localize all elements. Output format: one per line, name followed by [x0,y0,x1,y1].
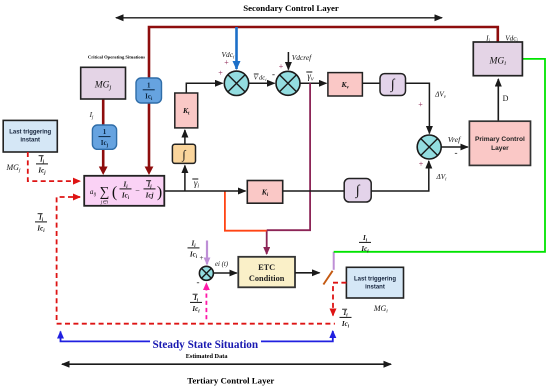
wire red dashed from last-trigger MGi down [333,283,346,316]
block Kv [328,73,363,96]
svg-text:): ) [157,184,162,201]
svg-text:j∈i: j∈i [100,200,109,206]
block integrator2 (orange) [172,144,195,163]
wire Ki to integrator3 [283,190,345,192]
svg-text:Vref: Vref [448,135,462,144]
svg-text:∫: ∫ [181,148,186,162]
svg-text:+: + [224,58,229,67]
svg-text:Ici: Ici [36,225,45,235]
block integrator1 (upper) [380,74,406,96]
wire D arrow PCL to MGi [497,79,499,121]
wire integrator1 to junction3 (DeltaV_v) [406,83,430,133]
svg-text:Layer: Layer [491,145,509,152]
wire integrator2 to Kt [184,130,186,144]
wire dark-red bus top (MGi feed) [149,27,498,173]
wire maroon drop into ETC Condition [266,230,268,254]
wire dark-red MGj chain down [102,99,105,167]
wire e_i junction to ETC [214,272,237,274]
svg-text:ΔVv: ΔVv [434,91,447,101]
svg-text:+: + [419,160,424,169]
block Kt [175,93,198,128]
svg-text:+: + [279,62,284,71]
svg-text:+: + [418,100,423,109]
block Last triggering instant (MGj) [3,120,57,152]
svg-text:MGj: MGj [94,81,112,92]
svg-text:Critical Operating Situations: Critical Operating Situations [88,55,145,60]
wire secondary-layer double arrow [116,17,442,19]
svg-text:Condition: Condition [249,274,285,283]
wire dark-red arrow into summation (from 1/Ici) [145,167,154,176]
wire purple arrow into e_i junction [206,241,208,265]
svg-text:Icj: Icj [145,192,154,200]
svg-text:Ij: Ij [89,111,94,121]
block MGj [81,67,126,99]
svg-text:1: 1 [103,128,107,136]
wire tertiary-layer double arrow [62,363,391,365]
wire purple switch terminal from green line [333,252,335,270]
svg-text:Primary Control: Primary Control [475,136,525,143]
svg-text:Ici: Ici [360,245,369,255]
wire ETC output to switch [295,272,320,274]
wire Vdc_i blue arrow [235,27,238,69]
svg-text:Last triggering: Last triggering [354,277,396,283]
wire green feedback from MGi [334,59,545,252]
wire junction3 to Primary Control Layer (Vref) [441,146,468,148]
svg-text:+: + [200,254,204,262]
svg-text:Ici: Ici [341,320,350,330]
wire maroon tap from gamma_v down to ETC [267,83,310,230]
svg-text:Ici: Ici [191,305,200,315]
block Primary Control Layer [469,121,530,165]
svg-text:ETC: ETC [258,263,275,272]
svg-text:V dci: V dci [254,75,268,83]
summing junction U3 (Vref) [417,135,441,159]
block Last triggering instant (MGi) [346,267,403,298]
svg-text:instant: instant [20,138,40,144]
svg-text:Icj: Icj [37,167,46,177]
wire red dashed steady-state feedback up into summation [57,197,80,320]
svg-text:D: D [503,94,509,103]
summing junction U1 (Vdc compare 1) [224,71,248,95]
wire tap up to integrator2 (orange box) [184,166,186,192]
svg-text:-: - [197,277,200,287]
svg-text:MGj: MGj [6,163,21,174]
svg-text:γv: γv [307,71,314,83]
wire blue steady-state right arrow [261,331,333,341]
block summation a_ij sum (tertiary consensus) [84,176,164,206]
svg-text:MGi: MGi [489,57,507,68]
block 1/Icj gain [92,125,116,149]
svg-text:-: - [455,148,458,158]
summing junction U2 (Vdc compare 2) [276,71,300,95]
svg-text:Vdcref: Vdcref [292,53,312,62]
svg-text:Tertiary Control Layer: Tertiary Control Layer [187,376,274,386]
wire dark-red arrow into summation (from 1/Icj) [99,167,108,176]
svg-text:(: ( [112,184,117,201]
wire Kv to integrator1 [362,82,380,84]
switch contact (orange diagonal) [323,271,332,285]
svg-text:Secondary Control Layer: Secondary Control Layer [243,3,339,13]
svg-text:∑: ∑ [100,184,110,199]
svg-text:Steady State Situation: Steady State Situation [152,339,258,351]
svg-text:−: − [135,187,140,196]
svg-text:instant: instant [365,285,385,291]
block 1/Ici gain [136,78,162,103]
wire junction1 to junction2 [249,82,275,84]
block Ki [247,181,282,204]
wire junction2 to Kv [300,82,326,84]
wire Kt output to junction1 [186,83,222,93]
summing junction e_i [199,266,213,280]
block integrator3 (lower) [344,179,371,203]
wire blue steady-state left arrow [61,332,151,342]
block ETC Condition [238,257,295,288]
wire red dashed from last-trigger MGj to summation [28,152,80,181]
svg-text:Last triggering: Last triggering [9,130,51,136]
svg-text:MGi: MGi [373,304,388,315]
svg-text:γi: γi [194,178,200,190]
svg-text:1: 1 [147,81,151,89]
svg-text:Ici: Ici [189,251,198,261]
wire summation output to Ki [164,190,245,192]
svg-text:Estimated Data: Estimated Data [186,353,229,360]
wire integrator3 to junction3 (DeltaV_i) [371,161,429,191]
block MGi [473,42,522,76]
svg-text:ΔVi: ΔVi [436,173,448,183]
wire orange tap from gamma_i line [225,191,267,231]
svg-text:+: + [218,69,223,78]
svg-text:-: - [272,69,275,79]
wire red dashed bottom horizontal [57,323,335,325]
wire magenta dashed into e_i junction [205,283,207,319]
label Vdcref arrow [287,52,289,70]
svg-text:ei (t): ei (t) [215,261,229,268]
